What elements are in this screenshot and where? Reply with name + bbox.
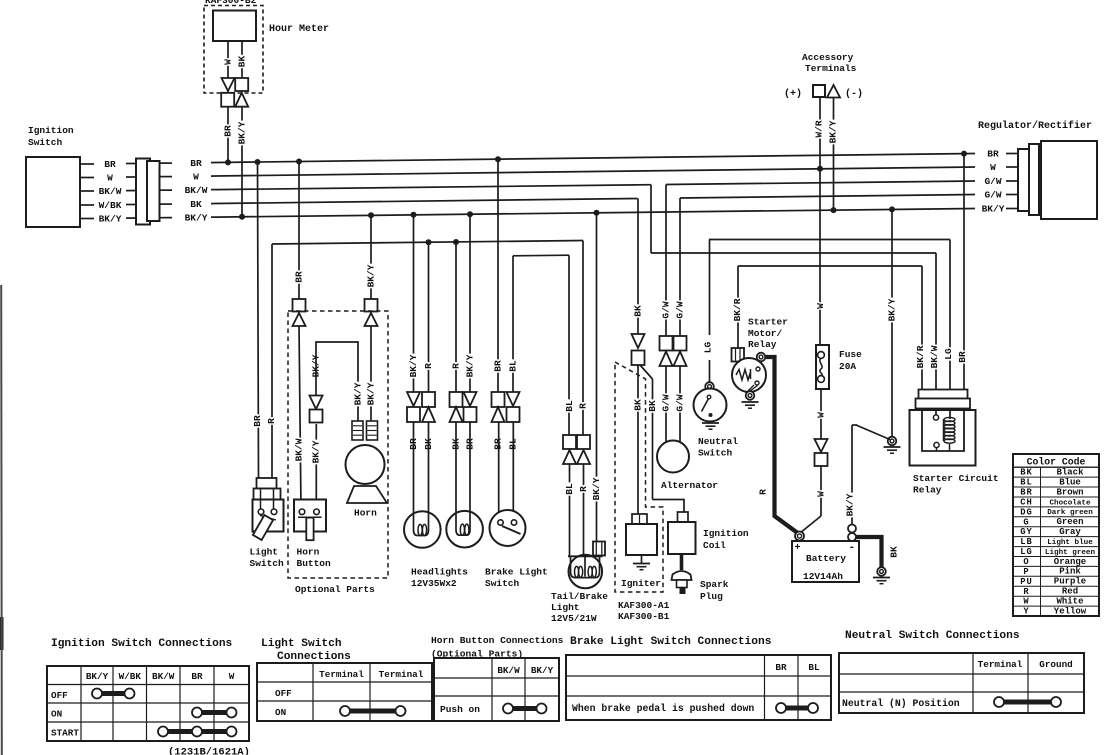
svg-text:R: R xyxy=(578,403,589,409)
svg-text:BR: BR xyxy=(493,360,504,372)
svg-text:Pink: Pink xyxy=(1059,567,1081,577)
svg-text:BK/Y: BK/Y xyxy=(366,382,377,405)
svg-text:Light blue: Light blue xyxy=(1047,539,1093,547)
svg-text:Neutral Switch Connections: Neutral Switch Connections xyxy=(845,630,1020,642)
svg-text:20A: 20A xyxy=(839,361,856,372)
svg-text:BK/Y: BK/Y xyxy=(845,493,856,516)
svg-text:Light: Light xyxy=(250,547,279,558)
svg-text:BK/R: BK/R xyxy=(915,345,926,368)
svg-text:Regulator/Rectifier: Regulator/Rectifier xyxy=(978,120,1092,132)
svg-text:Connections: Connections xyxy=(277,651,351,663)
svg-text:Relay: Relay xyxy=(748,339,777,350)
svg-text:W: W xyxy=(229,671,235,682)
svg-text:P: P xyxy=(1023,567,1029,577)
svg-text:BK: BK xyxy=(190,199,202,210)
svg-text:W: W xyxy=(816,412,827,418)
svg-text:Y: Y xyxy=(1023,607,1029,617)
svg-text:BK/W: BK/W xyxy=(185,185,208,196)
svg-text:O: O xyxy=(1023,557,1029,567)
svg-text:Orange: Orange xyxy=(1054,557,1086,567)
svg-text:BK: BK xyxy=(889,546,900,558)
svg-text:12V14Ah: 12V14Ah xyxy=(803,571,843,582)
svg-text:Button: Button xyxy=(297,558,332,569)
svg-text:Relay: Relay xyxy=(913,485,942,496)
svg-text:Gray: Gray xyxy=(1059,527,1081,537)
svg-text:W: W xyxy=(223,59,234,65)
svg-text:BR: BR xyxy=(191,671,203,682)
svg-text:Terminals: Terminals xyxy=(805,63,857,74)
svg-text:G: G xyxy=(1023,517,1029,527)
svg-text:Horn: Horn xyxy=(297,547,320,558)
svg-text:BK/Y: BK/Y xyxy=(828,120,839,143)
svg-text:Ignition Switch Connections: Ignition Switch Connections xyxy=(51,638,233,650)
svg-text:R: R xyxy=(578,486,589,492)
svg-text:W: W xyxy=(816,491,827,497)
svg-text:G/W: G/W xyxy=(984,190,1001,201)
svg-text:Black: Black xyxy=(1056,468,1084,478)
svg-text:Tail/Brake: Tail/Brake xyxy=(551,591,608,602)
svg-text:Battery: Battery xyxy=(806,553,846,564)
svg-text:Starter Circuit: Starter Circuit xyxy=(913,473,999,484)
svg-text:Neutral (N) Position: Neutral (N) Position xyxy=(842,698,960,709)
svg-text:OFF: OFF xyxy=(51,690,68,701)
svg-text:Motor/: Motor/ xyxy=(748,328,783,339)
svg-text:W/R: W/R xyxy=(814,120,825,137)
svg-text:KAF300-B1: KAF300-B1 xyxy=(618,611,670,622)
svg-text:BK/Y: BK/Y xyxy=(887,298,898,321)
svg-text:BK: BK xyxy=(1020,468,1033,478)
svg-text:W: W xyxy=(107,173,113,184)
svg-text:BK/R: BK/R xyxy=(732,298,743,321)
svg-text:START: START xyxy=(51,728,79,739)
svg-text:BK/Y: BK/Y xyxy=(982,204,1005,215)
svg-text:Ground: Ground xyxy=(1039,659,1072,670)
svg-text:+: + xyxy=(795,543,801,554)
svg-text:Switch: Switch xyxy=(698,448,733,459)
svg-text:R: R xyxy=(423,363,434,369)
svg-text:G/W: G/W xyxy=(661,301,672,318)
svg-text:When brake pedal is pushed dow: When brake pedal is pushed down xyxy=(572,703,754,714)
svg-text:BK/W: BK/W xyxy=(497,665,520,676)
svg-text:BK/Y: BK/Y xyxy=(531,665,554,676)
svg-text:LG: LG xyxy=(1020,547,1033,557)
svg-text:Light Switch: Light Switch xyxy=(261,638,342,650)
svg-text:W: W xyxy=(193,171,199,182)
svg-text:Push on: Push on xyxy=(440,704,480,715)
svg-text:Light green: Light green xyxy=(1045,549,1096,557)
svg-text:KAF300-B2: KAF300-B2 xyxy=(205,0,257,6)
svg-text:Neutral: Neutral xyxy=(698,436,738,447)
svg-text:BL: BL xyxy=(1020,478,1033,488)
svg-text:G/W: G/W xyxy=(984,176,1001,187)
svg-text:Color Code: Color Code xyxy=(1027,457,1086,468)
svg-text:BK/W: BK/W xyxy=(929,345,940,368)
svg-text:White: White xyxy=(1056,597,1083,607)
svg-text:Brake Light: Brake Light xyxy=(485,567,548,578)
svg-text:BK/Y: BK/Y xyxy=(311,440,322,463)
svg-text:12V5/21W: 12V5/21W xyxy=(551,613,597,624)
svg-text:BR: BR xyxy=(1020,488,1033,498)
svg-text:BL: BL xyxy=(808,662,820,673)
svg-text:BK: BK xyxy=(237,56,248,68)
svg-text:BL: BL xyxy=(564,400,575,412)
svg-text:BK/Y: BK/Y xyxy=(86,671,109,682)
svg-text:Light: Light xyxy=(551,602,580,613)
svg-text:Switch: Switch xyxy=(28,137,63,148)
svg-text:Starter: Starter xyxy=(748,317,788,328)
svg-text:Ignition: Ignition xyxy=(28,125,74,136)
svg-text:ON: ON xyxy=(51,709,62,720)
svg-text:R: R xyxy=(758,489,769,495)
svg-text:OFF: OFF xyxy=(275,688,292,699)
svg-text:BR: BR xyxy=(294,271,305,283)
svg-text:BK/Y: BK/Y xyxy=(465,354,476,377)
svg-text:BR: BR xyxy=(223,125,234,137)
svg-text:R: R xyxy=(266,418,277,424)
svg-text:BK/W: BK/W xyxy=(294,438,305,461)
svg-text:Ignition: Ignition xyxy=(703,528,749,539)
svg-text:LG: LG xyxy=(943,348,954,360)
svg-text:BK: BK xyxy=(633,399,644,411)
svg-text:W/BK: W/BK xyxy=(99,200,122,211)
svg-text:Headlights: Headlights xyxy=(411,567,468,578)
svg-text:BK/Y: BK/Y xyxy=(237,121,248,144)
svg-text:LG: LG xyxy=(703,342,714,354)
svg-text:BK/W: BK/W xyxy=(152,671,175,682)
svg-text:W: W xyxy=(990,162,996,173)
svg-text:W: W xyxy=(815,303,826,309)
svg-text:Optional Parts: Optional Parts xyxy=(295,584,375,595)
svg-text:BK: BK xyxy=(633,305,644,317)
svg-text:GY: GY xyxy=(1020,527,1033,537)
svg-text:W/BK: W/BK xyxy=(119,671,142,682)
svg-text:BK/Y: BK/Y xyxy=(185,213,208,224)
svg-text:Brown: Brown xyxy=(1056,487,1083,497)
svg-text:Hour Meter: Hour Meter xyxy=(269,24,329,35)
svg-text:G/W: G/W xyxy=(661,394,672,411)
svg-text:KAF300-A1: KAF300-A1 xyxy=(618,600,670,611)
svg-text:BL: BL xyxy=(564,483,575,495)
svg-text:Horn: Horn xyxy=(354,508,377,519)
svg-text:(-): (-) xyxy=(845,88,863,100)
svg-text:CH: CH xyxy=(1020,498,1033,508)
svg-text:PU: PU xyxy=(1020,577,1033,587)
svg-text:BR: BR xyxy=(190,158,202,169)
svg-text:Switch: Switch xyxy=(485,578,520,589)
svg-text:BK/Y: BK/Y xyxy=(408,354,419,377)
svg-text:Horn Button Connections: Horn Button Connections xyxy=(431,635,564,646)
svg-text:G/W: G/W xyxy=(675,301,686,318)
svg-text:BR: BR xyxy=(252,415,263,427)
svg-text:Red: Red xyxy=(1062,587,1078,597)
svg-text:Fuse: Fuse xyxy=(839,349,862,360)
svg-text:BK: BK xyxy=(647,400,658,412)
svg-text:R: R xyxy=(451,363,462,369)
svg-text:G/W: G/W xyxy=(675,394,686,411)
svg-text:Terminal: Terminal xyxy=(379,669,424,680)
svg-text:Chocolate: Chocolate xyxy=(1049,499,1090,507)
svg-text:Spark: Spark xyxy=(700,579,729,590)
svg-text:Green: Green xyxy=(1056,517,1083,527)
svg-text:Blue: Blue xyxy=(1059,477,1081,487)
svg-text:BK/W: BK/W xyxy=(99,186,122,197)
svg-text:W: W xyxy=(1023,597,1029,607)
svg-text:Coil: Coil xyxy=(703,540,726,551)
svg-text:-: - xyxy=(849,542,856,554)
svg-text:BK/Y: BK/Y xyxy=(99,214,122,225)
svg-text:BK/Y: BK/Y xyxy=(591,477,602,500)
svg-text:BK/Y: BK/Y xyxy=(353,382,364,405)
svg-text:Dark green: Dark green xyxy=(1047,509,1093,517)
svg-text:BL: BL xyxy=(508,360,519,372)
svg-text:Accessory: Accessory xyxy=(802,52,854,63)
svg-text:BK/Y: BK/Y xyxy=(366,264,377,287)
svg-text:BR: BR xyxy=(104,159,116,170)
svg-text:DG: DG xyxy=(1020,507,1033,517)
svg-text:LB: LB xyxy=(1020,537,1033,547)
svg-text:Switch: Switch xyxy=(250,558,285,569)
svg-text:Alternator: Alternator xyxy=(661,480,718,491)
svg-text:BR: BR xyxy=(775,662,787,673)
svg-text:(+): (+) xyxy=(784,88,802,100)
svg-text:Igniter: Igniter xyxy=(621,578,661,589)
svg-text:Terminal: Terminal xyxy=(978,659,1023,670)
svg-text:ON: ON xyxy=(275,707,286,718)
svg-text:Purple: Purple xyxy=(1054,577,1086,587)
svg-text:BR: BR xyxy=(987,149,999,160)
svg-text:Terminal: Terminal xyxy=(319,669,364,680)
svg-text:(1231B/1621A): (1231B/1621A) xyxy=(168,747,250,755)
svg-text:R: R xyxy=(1023,587,1029,597)
svg-text:12V35Wx2: 12V35Wx2 xyxy=(411,578,457,589)
svg-text:Brake Light Switch Connections: Brake Light Switch Connections xyxy=(570,636,772,648)
svg-text:BR: BR xyxy=(957,351,968,363)
svg-text:Yellow: Yellow xyxy=(1054,606,1087,616)
svg-text:Plug: Plug xyxy=(700,591,723,602)
